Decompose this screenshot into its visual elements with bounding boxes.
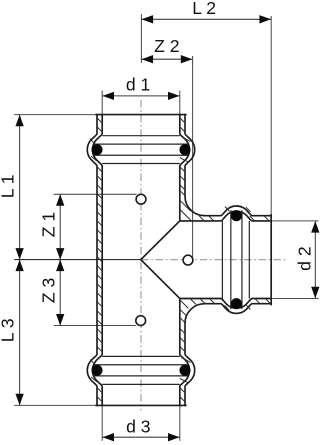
- wall hatching: [97, 118, 102, 123]
- Z3 extension at insertion depth: [54, 325, 136, 327]
- o-ring bottom-right: [179, 365, 190, 376]
- branch centerline (dash-dot): [141, 259, 286, 261]
- svg-text:d 1: d 1: [126, 74, 150, 94]
- dimension L3: [19, 260, 21, 406]
- branch: bottom inner wall: [180, 299, 271, 309]
- L1/L3/Z1/Z3 reference line at branch axis: [14, 259, 141, 261]
- svg-text:Z 2: Z 2: [154, 36, 179, 56]
- vertical pipe centerline: [140, 100, 142, 411]
- branch cone lower 45deg line: [141, 260, 180, 299]
- dimension L1: [19, 115, 21, 260]
- tee body: bottom edge: [96, 404, 186, 406]
- svg-text:d 3: d 3: [126, 417, 151, 437]
- dimension d3: [102, 436, 180, 438]
- svg-text:L 1: L 1: [0, 174, 18, 198]
- L3 extension at pipe bottom: [14, 404, 97, 406]
- branch: end face: [270, 215, 272, 305]
- d2 extension top: [272, 220, 318, 222]
- d1 extension left: [101, 91, 103, 118]
- dimension d2: [314, 221, 316, 299]
- dimension Z2: [141, 58, 193, 60]
- L2/Z2 extension at pipe centerline: [140, 14, 142, 63]
- dimension Z3: [59, 260, 61, 326]
- tee body: left inner wall: [93, 115, 103, 406]
- o-ring branch-bottom: [231, 298, 242, 309]
- insertion depth marker bottom: [136, 316, 146, 326]
- upper shoulder hatches: [181, 191, 185, 195]
- branch: bottom outer wall: [205, 304, 272, 314]
- tee body: right outer wall lower + shoulder fillet: [185, 304, 205, 406]
- d2 extension bottom: [272, 298, 318, 300]
- svg-text:L 3: L 3: [0, 318, 18, 342]
- lower shoulder hatches: [180, 300, 189, 309]
- d1 extension right: [179, 91, 181, 118]
- L2 extension at branch end: [270, 16, 272, 216]
- insertion depth marker branch: [183, 255, 193, 265]
- branch: top outer wall: [205, 206, 272, 216]
- o-ring branch-top: [231, 210, 242, 221]
- top press zone interior lines: [102, 135, 180, 137]
- d3 extension right: [179, 405, 181, 440]
- tee body: top edge: [96, 114, 186, 116]
- svg-text:Z 3: Z 3: [38, 277, 58, 303]
- branch press zone interior lines: [221, 221, 223, 299]
- d3 extension left: [101, 405, 103, 440]
- Z1 extension at insertion depth: [54, 193, 137, 195]
- bottom press zone interior lines: [102, 355, 180, 357]
- dimension Z1: [59, 194, 61, 259]
- o-ring bottom-left: [91, 365, 102, 376]
- svg-text:Z 1: Z 1: [38, 212, 58, 237]
- tee body: right inner wall upper: [180, 115, 190, 221]
- branch: top inner wall: [180, 211, 271, 221]
- branch cone upper 45deg line: [141, 221, 180, 260]
- dimension d1: [102, 95, 180, 97]
- o-ring top-left: [91, 144, 102, 155]
- tee body: right inner wall lower: [180, 299, 190, 406]
- tee body: right outer wall upper + shoulder fillet: [185, 115, 205, 216]
- insertion depth marker top: [136, 194, 146, 204]
- svg-text:d 2: d 2: [294, 246, 314, 270]
- dimension L2: [141, 18, 271, 20]
- L1 extension at pipe top: [14, 114, 97, 116]
- tee body: left outer wall: [87, 115, 97, 406]
- svg-text:L 2: L 2: [192, 0, 216, 18]
- o-ring top-right: [179, 144, 190, 155]
- Z2 extension to insertion point: [192, 56, 194, 257]
